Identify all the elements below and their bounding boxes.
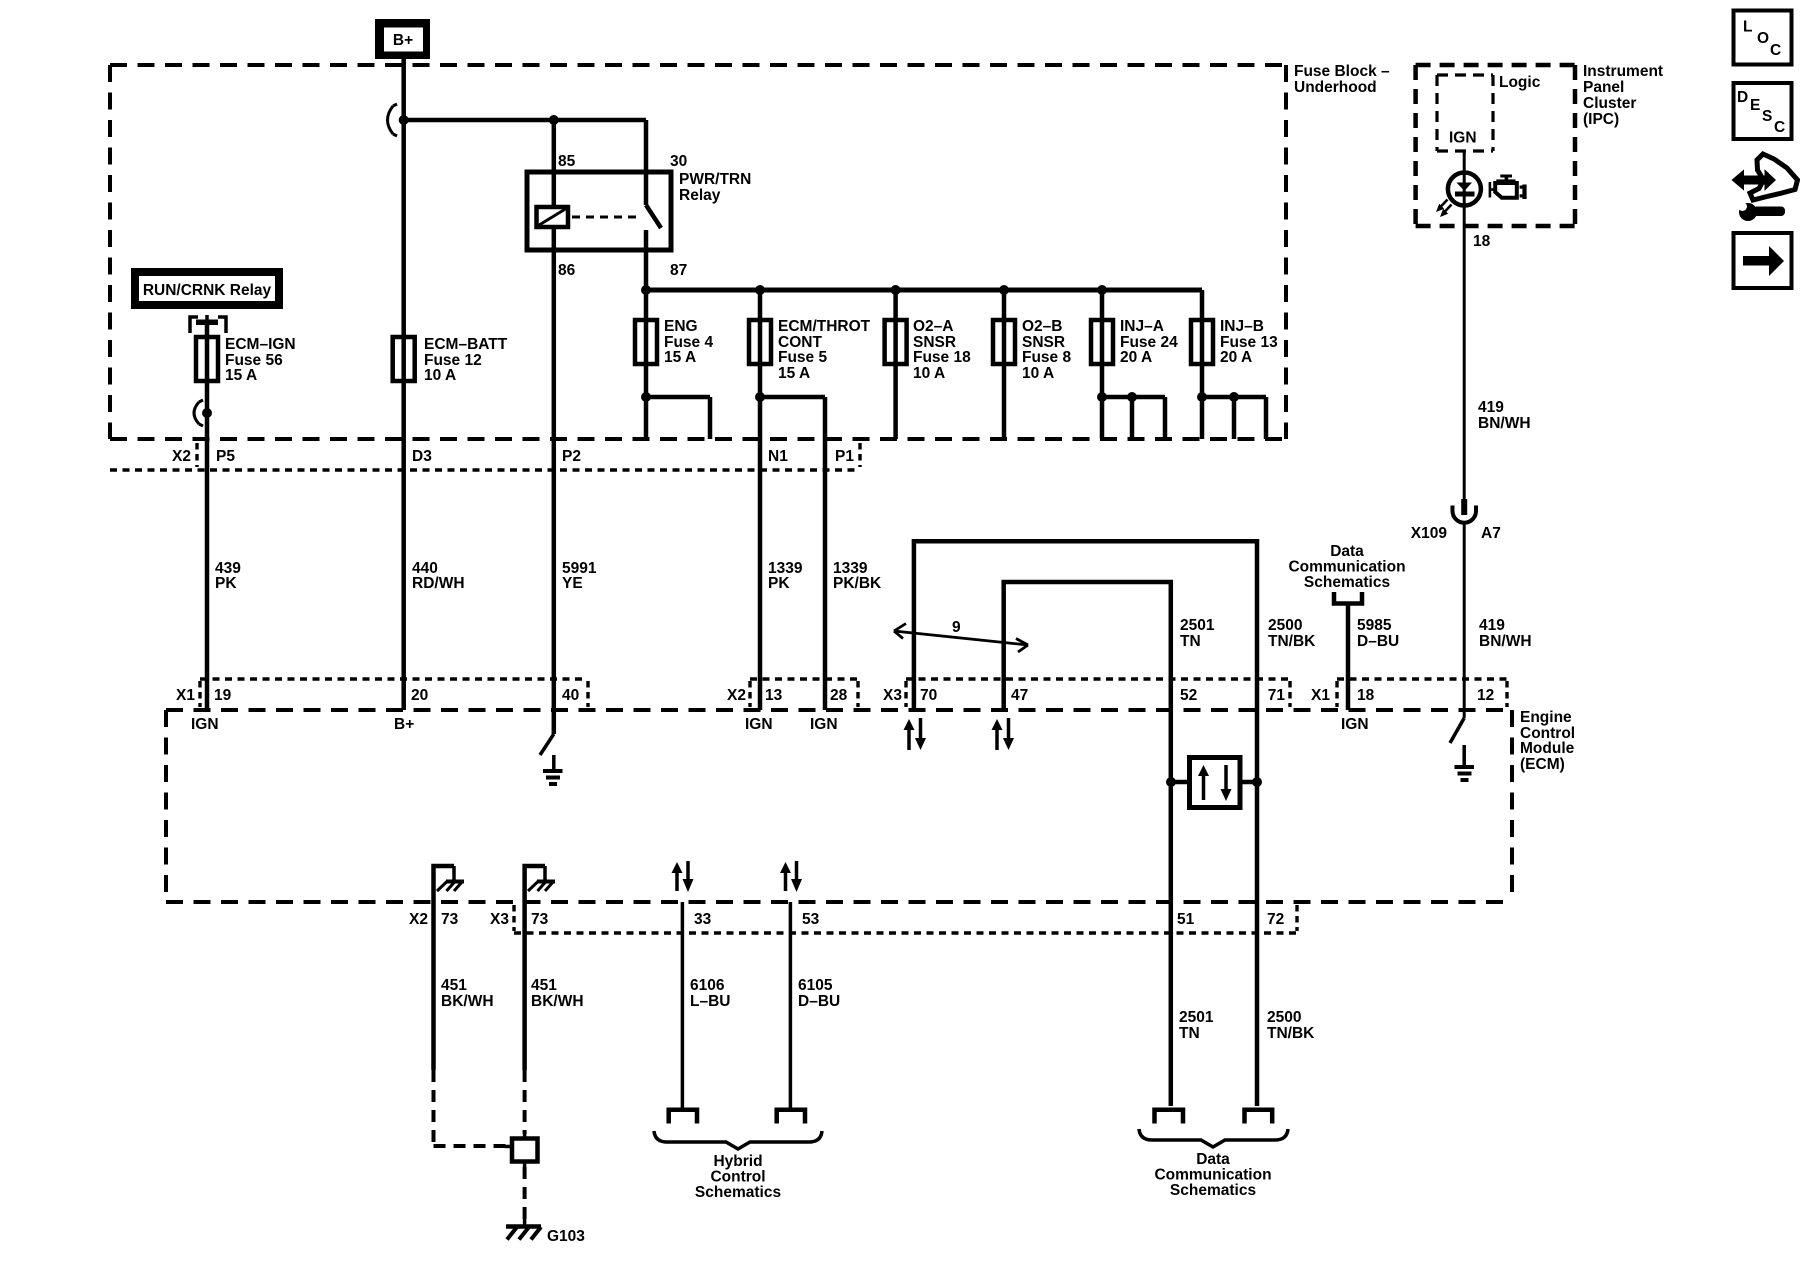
label ECM-IGN fuse <box>225 336 296 384</box>
label O2-A fuse <box>913 318 971 382</box>
svg-text:33: 33 <box>694 911 712 928</box>
svg-text:ENG: ENG <box>664 318 698 335</box>
wire branch to PWR/TRN relay <box>404 118 646 123</box>
svg-text:15 A: 15 A <box>664 349 696 366</box>
svg-text:TN: TN <box>1180 633 1201 650</box>
svg-text:X1: X1 <box>1311 687 1330 704</box>
svg-text:D3: D3 <box>412 448 432 465</box>
wire 419 BN/WH lower <box>1463 524 1466 710</box>
svg-text:Fuse 8: Fuse 8 <box>1022 349 1071 366</box>
splice connector on 439 wire <box>194 400 212 426</box>
svg-text:72: 72 <box>1267 911 1284 928</box>
inline connector X109 pin A7 <box>1453 499 1477 523</box>
wire label 2500 TN/BK upper <box>1268 617 1316 650</box>
ground symbol pin 12 <box>1455 745 1475 780</box>
svg-text:P5: P5 <box>216 448 235 465</box>
icon box forward arrow <box>1734 233 1792 288</box>
svg-text:Module: Module <box>1520 740 1575 757</box>
svg-text:Control: Control <box>710 1169 765 1186</box>
svg-text:S: S <box>1762 108 1772 125</box>
wire label 440 RD/WH <box>412 560 465 592</box>
wire label 419 BN/WH upper <box>1478 399 1531 432</box>
bidirectional arrows pin 47 <box>992 718 1015 750</box>
wire label 2501 TN upper <box>1180 617 1215 650</box>
fuse O2-B SNSR Fuse 8 <box>993 320 1015 364</box>
svg-text:Data: Data <box>1196 1151 1230 1168</box>
svg-text:L–BU: L–BU <box>690 993 730 1010</box>
ground symbol pin 40 <box>543 755 563 784</box>
engine MIL icon <box>1489 175 1527 200</box>
wire INJ-B comb branches <box>1202 397 1266 439</box>
lower connector strip dotted line <box>514 931 1298 934</box>
icon box LOC <box>1734 11 1792 65</box>
LED indicator MIL <box>1448 173 1481 206</box>
junction dots INJ-B comb <box>1197 392 1239 402</box>
svg-text:Cluster: Cluster <box>1583 95 1636 112</box>
fuse ECM-BATT Fuse 12 <box>393 337 415 381</box>
wire label 6105 D-BU <box>798 977 840 1010</box>
splice connector symbol on B+ wire <box>388 104 398 136</box>
node B+ battery feed box <box>375 19 430 59</box>
svg-text:Relay: Relay <box>679 187 721 204</box>
wire label 2500 TN/BK lower <box>1267 1009 1315 1042</box>
svg-text:RUN/CRNK Relay: RUN/CRNK Relay <box>143 282 272 299</box>
svg-text:X1: X1 <box>176 687 195 704</box>
ECM connector separator after 71 <box>1288 681 1291 707</box>
svg-text:20: 20 <box>411 687 428 704</box>
svg-text:5985: 5985 <box>1357 617 1392 634</box>
svg-text:451: 451 <box>441 977 467 994</box>
svg-text:IGN: IGN <box>1341 716 1369 733</box>
svg-text:20 A: 20 A <box>1220 349 1252 366</box>
ECM connector separator X1 <box>198 681 201 707</box>
svg-text:PWR/TRN: PWR/TRN <box>679 171 751 188</box>
svg-text:Communication: Communication <box>1154 1167 1271 1184</box>
svg-text:INJ–B: INJ–B <box>1220 318 1264 335</box>
svg-text:Communication: Communication <box>1288 559 1405 576</box>
svg-text:(IPC): (IPC) <box>1583 111 1619 128</box>
splice box S-connector at ground junction <box>505 1130 538 1167</box>
svg-text:X3: X3 <box>883 687 902 704</box>
svg-text:N1: N1 <box>768 448 788 465</box>
svg-text:ECM/THROT: ECM/THROT <box>778 318 871 335</box>
svg-text:20 A: 20 A <box>1120 349 1152 366</box>
ECM connector strip dotted line segment X1b <box>1337 677 1507 680</box>
crossing note arrow 9 <box>894 619 1028 652</box>
wire label 1339 PK/BK <box>833 560 882 592</box>
svg-text:53: 53 <box>802 911 820 928</box>
ECM connector separator after 40 <box>586 681 589 707</box>
svg-text:D–BU: D–BU <box>798 993 840 1010</box>
svg-text:6106: 6106 <box>690 977 725 994</box>
wire 439 PK column <box>205 322 210 710</box>
wire 451 BK/WH (X3-73) <box>522 902 527 1134</box>
svg-text:G103: G103 <box>547 1228 585 1245</box>
svg-text:IGN: IGN <box>191 716 219 733</box>
svg-text:Instrument: Instrument <box>1583 63 1663 80</box>
ECM connector strip dotted line segment X1 <box>200 677 586 680</box>
svg-text:30: 30 <box>670 153 687 170</box>
svg-text:PK/BK: PK/BK <box>833 575 882 592</box>
svg-text:Fuse 5: Fuse 5 <box>778 349 827 366</box>
brace Hybrid Control Schematics <box>654 1131 822 1149</box>
svg-text:O2–A: O2–A <box>913 318 954 335</box>
serial data gateway arrow box between 52 and 71 <box>1166 758 1262 808</box>
ECM connector strip dotted line segment X3 <box>906 677 1290 680</box>
ECM connector separator after 12 <box>1505 681 1508 707</box>
IPC dashed box <box>1416 65 1575 226</box>
svg-text:ECM–IGN: ECM–IGN <box>225 336 296 353</box>
svg-text:73: 73 <box>441 911 459 928</box>
wire ECM/THROT branch to pin P1 (1339 PK/BK) <box>760 397 825 710</box>
wire relay pin 30 <box>644 120 649 205</box>
svg-text:TN/BK: TN/BK <box>1267 1025 1315 1042</box>
svg-text:Schematics: Schematics <box>695 1184 781 1201</box>
svg-text:C: C <box>1774 119 1785 136</box>
wire INJ-B fuse column <box>1200 290 1205 439</box>
svg-text:Schematics: Schematics <box>1304 574 1390 591</box>
svg-text:Engine: Engine <box>1520 709 1572 726</box>
ECM connector separator X1b <box>1335 681 1338 707</box>
label Instrument Panel Cluster (IPC) <box>1583 63 1663 128</box>
bidirectional arrows pin 70 <box>904 718 927 750</box>
lower connector separator X3 <box>512 905 515 931</box>
wire label 419 BN/WH lower <box>1479 617 1532 650</box>
wire relay pin 86 down (5991 YE) <box>552 227 557 710</box>
svg-text:RD/WH: RD/WH <box>412 575 465 592</box>
svg-text:B+: B+ <box>394 716 414 733</box>
relay U PWR/TRN box <box>527 172 671 250</box>
off-page terminal 5985 <box>1334 592 1362 604</box>
fuse ENG Fuse 4 <box>635 320 657 364</box>
wire IGN to MIL lamp <box>1463 151 1466 226</box>
fuse INJ-B Fuse 13 <box>1191 320 1213 364</box>
relay switch blade <box>646 205 661 228</box>
svg-text:IGN: IGN <box>810 716 838 733</box>
svg-text:X2: X2 <box>409 911 428 928</box>
label ECM-BATT fuse <box>424 336 508 384</box>
svg-text:Logic: Logic <box>1499 74 1541 91</box>
svg-text:P1: P1 <box>835 448 854 465</box>
chassis ground symbol X3-73 <box>528 882 555 892</box>
svg-text:19: 19 <box>214 687 232 704</box>
junction dot relay coil feed <box>549 115 559 125</box>
svg-text:O: O <box>1757 30 1769 47</box>
wire label 6106 L-BU <box>690 977 730 1010</box>
relay name label <box>679 171 751 204</box>
relay coil symbol <box>537 207 569 227</box>
off-page terminal pin 72 <box>1245 1110 1273 1124</box>
svg-text:X2: X2 <box>727 687 746 704</box>
wire 5985 D-BU <box>1346 604 1351 711</box>
wire 2501 TN loop pin47 to pin52/51 <box>1004 582 1171 1106</box>
brace Data Communication Schematics <box>1139 1129 1288 1147</box>
svg-text:O2–B: O2–B <box>1022 318 1063 335</box>
svg-text:85: 85 <box>558 153 576 170</box>
chassis ground symbol X2-73 <box>437 882 464 892</box>
ECM connector strip dotted line segment X2 <box>750 677 858 680</box>
svg-text:E: E <box>1750 97 1760 114</box>
reference Hybrid Control Schematics <box>695 1153 781 1201</box>
ground hook inside ECM pin X3-73 <box>525 866 545 902</box>
ground hook inside ECM pin X2-73 <box>434 866 455 902</box>
wire 419 BN/WH upper <box>1463 226 1466 499</box>
svg-text:71: 71 <box>1268 687 1286 704</box>
junction dots on fuse bus <box>641 285 1107 295</box>
svg-text:6105: 6105 <box>798 977 833 994</box>
off-page terminal pin 53 <box>777 1110 805 1124</box>
svg-text:Data: Data <box>1330 543 1364 560</box>
wire INJ-A fuse column <box>1100 290 1105 439</box>
wire label 5991 YE <box>562 560 597 592</box>
bidirectional arrows pin 33 <box>672 861 694 892</box>
svg-text:15 A: 15 A <box>778 365 810 382</box>
svg-text:Underhood: Underhood <box>1294 79 1377 96</box>
wire 2500 TN/BK loop pin70 to pin71/72 <box>914 541 1257 1106</box>
svg-text:2500: 2500 <box>1267 1009 1301 1026</box>
svg-text:40: 40 <box>562 687 579 704</box>
svg-text:28: 28 <box>830 687 848 704</box>
wire O2-A fuse column <box>893 290 898 439</box>
svg-text:73: 73 <box>531 911 549 928</box>
ECM connector separator after 28 <box>856 681 859 707</box>
wire ECM/THROT fuse column (1339 PK) <box>758 290 763 710</box>
wire ENG branch pin jog <box>646 397 710 439</box>
svg-text:419: 419 <box>1479 617 1505 634</box>
svg-text:(ECM): (ECM) <box>1520 756 1565 773</box>
svg-text:X109: X109 <box>1411 525 1448 542</box>
fuse INJ-A Fuse 24 <box>1091 320 1113 364</box>
wire 6105 D-BU <box>789 902 793 1108</box>
dashed wire to G103 <box>523 1167 527 1220</box>
svg-text:D: D <box>1737 89 1748 106</box>
svg-text:BK/WH: BK/WH <box>531 993 584 1010</box>
svg-text:10 A: 10 A <box>913 365 945 382</box>
svg-text:52: 52 <box>1180 687 1197 704</box>
label INJ-B fuse <box>1220 318 1278 366</box>
wire label 5985 D-BU <box>1357 617 1399 650</box>
svg-text:TN/BK: TN/BK <box>1268 633 1316 650</box>
icon diagnostic arrows and wrench <box>1733 154 1798 221</box>
svg-text:A7: A7 <box>1481 525 1501 542</box>
svg-text:TN: TN <box>1179 1025 1200 1042</box>
ECM connector separator X2 <box>748 681 751 707</box>
svg-text:Fuse Block –: Fuse Block – <box>1294 63 1390 80</box>
switch to ground inside ECM pin 12 <box>1450 710 1464 743</box>
svg-text:ECM–BATT: ECM–BATT <box>424 336 508 353</box>
wire ENG fuse column <box>644 290 649 439</box>
icon box DESC <box>1734 83 1792 139</box>
svg-text:10 A: 10 A <box>1022 365 1054 382</box>
wire label 1339 PK <box>768 560 803 592</box>
svg-text:Fuse 18: Fuse 18 <box>913 349 971 366</box>
svg-text:87: 87 <box>670 262 687 279</box>
svg-text:2501: 2501 <box>1180 617 1215 634</box>
svg-text:9: 9 <box>952 619 961 636</box>
wire relay pin 87 <box>644 230 649 290</box>
RUN/CRNK Relay label box <box>131 268 283 309</box>
svg-text:419: 419 <box>1478 399 1504 416</box>
bidirectional arrows pin 53 <box>780 861 802 892</box>
junction dot ECM/THROT jog <box>755 392 765 402</box>
svg-text:12: 12 <box>1477 687 1494 704</box>
wire INJ-A comb branches <box>1102 397 1165 439</box>
wire label 451 BK/WH (X3) <box>531 977 584 1010</box>
svg-text:451: 451 <box>531 977 557 994</box>
wire relay pin 85 <box>552 120 557 207</box>
connector separator after P1 <box>858 443 861 467</box>
switch to ground inside ECM pin 40 <box>540 710 554 755</box>
svg-text:18: 18 <box>1473 233 1491 250</box>
label ENG fuse <box>664 318 713 366</box>
svg-text:X2: X2 <box>172 448 191 465</box>
fuse ECM/THROT CONT Fuse 5 <box>749 320 771 364</box>
chassis ground G103 <box>506 1218 541 1240</box>
LED light emission arrows <box>1436 200 1452 218</box>
ECM dashed box <box>166 710 1512 902</box>
svg-text:10 A: 10 A <box>424 367 456 384</box>
connector separator X2/P5 <box>195 443 198 467</box>
svg-text:13: 13 <box>765 687 783 704</box>
svg-text:Panel: Panel <box>1583 79 1624 96</box>
junction dot ENG jog <box>641 392 651 402</box>
svg-text:70: 70 <box>920 687 937 704</box>
svg-text:PK: PK <box>215 575 237 592</box>
reference Data Communication Schematics (bottom) <box>1154 1151 1271 1199</box>
fuse block - underhood dashed box <box>110 63 1390 439</box>
fuse ECM-IGN Fuse 56 <box>196 337 218 381</box>
wire 6106 L-BU <box>681 902 685 1108</box>
svg-text:L: L <box>1743 19 1752 36</box>
wire B+ vertical to connector D3 <box>401 59 406 710</box>
wire O2-B fuse column <box>1002 290 1007 439</box>
ECM connector separator X3 <box>904 681 907 707</box>
svg-text:2500: 2500 <box>1268 617 1302 634</box>
svg-text:2501: 2501 <box>1179 1009 1214 1026</box>
junction dots INJ-A comb <box>1097 392 1137 402</box>
svg-text:Hybrid: Hybrid <box>713 1153 762 1170</box>
svg-text:86: 86 <box>558 262 576 279</box>
svg-text:IGN: IGN <box>745 716 773 733</box>
label INJ-A fuse <box>1120 318 1178 366</box>
svg-text:BN/WH: BN/WH <box>1479 633 1532 650</box>
svg-text:Schematics: Schematics <box>1170 1182 1256 1199</box>
svg-text:C: C <box>1770 42 1781 59</box>
svg-text:18: 18 <box>1357 687 1375 704</box>
svg-text:B+: B+ <box>393 32 413 49</box>
svg-text:YE: YE <box>562 575 583 592</box>
reference Data Communication Schematics (top) <box>1288 543 1405 591</box>
off-page terminal pin 33 <box>669 1110 697 1124</box>
svg-text:15 A: 15 A <box>225 367 257 384</box>
svg-text:X3: X3 <box>490 911 509 928</box>
svg-text:BK/WH: BK/WH <box>441 993 494 1010</box>
junction dot at B+ branch <box>399 115 409 125</box>
svg-text:47: 47 <box>1011 687 1028 704</box>
fuse clip holder above ECM-IGN fuse <box>190 315 226 333</box>
lower connector separator after 72 <box>1295 905 1298 931</box>
IPC logic dashed box <box>1437 75 1493 151</box>
fuse O2-A SNSR Fuse 18 <box>885 320 907 364</box>
wire label 451 BK/WH (X2) <box>441 977 494 1010</box>
svg-text:INJ–A: INJ–A <box>1120 318 1164 335</box>
wire label 439 PK <box>215 560 241 592</box>
svg-text:P2: P2 <box>562 448 581 465</box>
label ECM/THROT fuse <box>778 318 871 382</box>
wire 451 BK/WH (X2-73) <box>434 902 512 1146</box>
label Engine Control Module (ECM) <box>1520 709 1575 773</box>
svg-text:D–BU: D–BU <box>1357 633 1399 650</box>
wire label 2501 TN lower <box>1179 1009 1214 1042</box>
label O2-B fuse <box>1022 318 1071 382</box>
svg-text:IGN: IGN <box>1449 130 1477 147</box>
svg-text:BN/WH: BN/WH <box>1478 415 1531 432</box>
wire bus from relay pin 87 to fuses <box>646 288 1202 293</box>
connector strip fuse block outputs (X2) dotted line <box>110 468 860 471</box>
relay coil-switch dashed link <box>572 216 638 219</box>
off-page terminal pin 51 <box>1155 1110 1184 1124</box>
svg-text:PK: PK <box>768 575 790 592</box>
svg-text:51: 51 <box>1177 911 1195 928</box>
